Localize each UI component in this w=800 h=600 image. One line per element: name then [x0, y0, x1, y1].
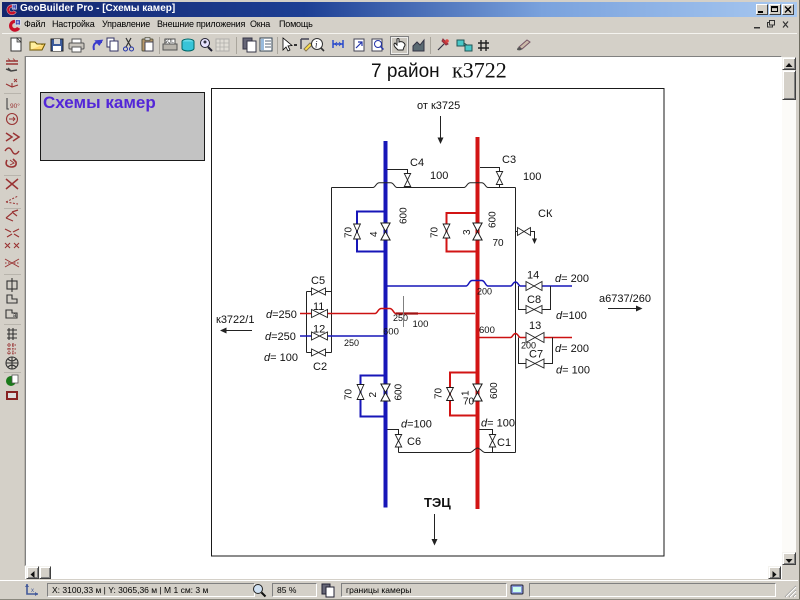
save — [51, 39, 63, 51]
print — [69, 39, 84, 52]
hash — [478, 40, 489, 51]
wire: supply trunk (blue) — [384, 141, 388, 508]
new — [11, 38, 21, 51]
valve 3 bypass loop (red) — [430, 211, 505, 252]
measure — [333, 40, 343, 48]
cursor arrow — [283, 38, 297, 51]
zoom page — [372, 39, 384, 51]
C5/11/12/C2 valve group — [307, 275, 332, 373]
copy pages colored — [243, 38, 256, 52]
outer frame — [212, 89, 665, 557]
info — [312, 39, 325, 52]
node ТЭЦ — [424, 495, 451, 546]
toolbar — [2, 33, 797, 56]
wire: return trunk (red) — [476, 137, 480, 509]
title bar — [2, 2, 797, 17]
valve 2 bypass loop (blue) — [344, 376, 405, 417]
nodes — [457, 40, 472, 51]
copy — [107, 38, 118, 51]
paste — [142, 38, 153, 52]
wire: red line to right — [479, 320, 589, 355]
grid gray — [216, 39, 229, 51]
cut — [124, 38, 134, 51]
svg-text:SQL: SQL — [164, 39, 174, 45]
camera boundary top edge — [332, 183, 516, 188]
status bar — [0, 580, 798, 598]
sql print — [163, 39, 177, 50]
zoom person — [201, 39, 213, 52]
legend box — [41, 93, 205, 161]
pin — [438, 39, 449, 50]
vertical scrollbar — [782, 57, 796, 565]
undo — [94, 40, 104, 50]
sep — [236, 37, 237, 54]
svg-text:90°: 90° — [10, 102, 20, 110]
page arrow — [354, 39, 364, 51]
C7 bypass — [519, 338, 590, 377]
valve СК — [516, 208, 553, 244]
node к3722/1 — [216, 314, 254, 334]
form list — [260, 38, 272, 51]
C8 bypass — [519, 286, 587, 322]
valve 12 — [312, 332, 328, 340]
branch C4 — [387, 157, 448, 188]
sep — [159, 37, 160, 54]
valve 11 — [312, 310, 328, 318]
valve C5 — [312, 288, 326, 295]
valve 14 — [526, 282, 542, 291]
valve 13 — [526, 333, 544, 343]
node а6737/260 — [599, 293, 651, 312]
branch C1 — [480, 418, 515, 453]
horizontal scrollbar — [25, 566, 782, 579]
wire: red line from к3722/1 — [266, 301, 475, 330]
sep — [277, 37, 278, 54]
valve C2 — [312, 349, 326, 356]
hand pressed — [391, 37, 409, 55]
branch C3 — [480, 154, 541, 188]
mountain — [413, 40, 424, 51]
valve 1 bypass loop (red) — [434, 373, 501, 416]
wire: blue line from к3722/1 — [264, 324, 384, 365]
left toolbar — [0, 56, 25, 566]
open — [30, 42, 45, 50]
valve 4 bypass loop (blue) — [344, 207, 410, 252]
db cylinder — [182, 39, 194, 51]
camera boundary bottom edge — [399, 448, 516, 453]
wire: blue line to а6737/260 — [387, 270, 589, 297]
branch C6 — [388, 419, 432, 453]
node: от к3725 — [417, 100, 460, 144]
camera boundary left edge — [331, 188, 333, 292]
svg-text:x: x — [31, 588, 34, 594]
sheet title — [371, 58, 507, 83]
sep — [430, 37, 431, 54]
brush — [517, 40, 530, 50]
cursor mark — [403, 296, 405, 327]
select line — [301, 39, 312, 51]
menu bar — [2, 17, 797, 33]
camera boundary right edge — [515, 188, 517, 453]
